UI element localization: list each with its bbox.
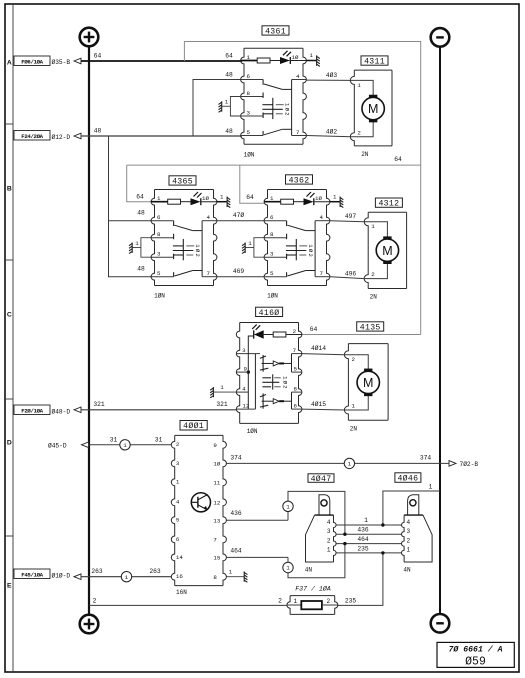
svg-text:4N: 4N: [403, 566, 411, 573]
fuse F37/10A: [287, 585, 338, 615]
svg-text:31: 31: [110, 436, 118, 443]
wire 48 branch to pin 6: [193, 71, 241, 136]
4361 coil terminals pins 8,3: [241, 96, 264, 98]
wire 402: [306, 128, 351, 137]
svg-text:3: 3: [327, 528, 331, 535]
4312 motor symbol: [376, 239, 398, 261]
ground at 4001 pin 8: [226, 569, 247, 583]
svg-text:64: 64: [225, 53, 233, 60]
svg-text:F37 / 1ØA: F37 / 1ØA: [295, 585, 331, 593]
svg-text:374: 374: [230, 455, 242, 462]
svg-text:4: 4: [327, 519, 331, 526]
wire 64 to 4160 pin 2: [302, 326, 421, 335]
svg-text:64: 64: [136, 194, 144, 201]
svg-text:1ØN: 1ØN: [154, 293, 165, 300]
svg-text:3: 3: [246, 109, 250, 116]
accessory socket 4Ø47: [305, 474, 336, 574]
F37 fuse element: [287, 604, 301, 606]
svg-text:4312: 4312: [378, 200, 399, 209]
4001 designator label: [180, 421, 207, 431]
wire 263: [81, 568, 171, 577]
svg-text:1: 1: [333, 193, 337, 200]
svg-text:64: 64: [394, 156, 402, 163]
svg-text:15: 15: [213, 555, 220, 562]
ground strap 4362 pins 8-3: [254, 238, 264, 258]
instrument cluster 4001: [171, 421, 226, 596]
svg-text:1: 1: [327, 547, 331, 554]
svg-text:2: 2: [281, 385, 288, 388]
wire 235 between sockets: [336, 545, 401, 553]
battery plus terminal bottom: [80, 615, 99, 634]
svg-text:1: 1: [220, 193, 224, 200]
4365 coil terminals pins 8,3: [151, 237, 174, 239]
4001 transistor symbol: [191, 493, 210, 512]
4362 contact pin 6-4: [264, 220, 287, 222]
svg-text:1: 1: [357, 82, 361, 89]
svg-text:D: D: [7, 440, 12, 447]
svg-text:47Ø: 47Ø: [233, 211, 245, 219]
4362 internal resistor: [264, 201, 281, 203]
svg-text:4361: 4361: [265, 27, 286, 36]
wire 470: [217, 211, 265, 221]
wire 48 branch to 4365: [109, 136, 152, 277]
svg-text:M: M: [368, 102, 378, 116]
svg-text:4362: 4362: [289, 176, 310, 185]
svg-text:2: 2: [284, 112, 291, 115]
motor 4135: [344, 322, 388, 433]
wire 403: [306, 71, 351, 80]
relay 4362: [242, 175, 343, 300]
zone strip line: [12, 4, 14, 672]
4361 designator label: [262, 26, 289, 35]
4365 designator label: [169, 176, 196, 185]
4Ø46 body: [404, 514, 423, 516]
svg-text:263: 263: [149, 568, 161, 575]
svg-text:2: 2: [176, 441, 180, 448]
svg-text:16N: 16N: [176, 589, 187, 596]
wire 436 between sockets: [336, 527, 401, 535]
wire 64 drop to 4365: [127, 165, 151, 202]
4Ø47 designator label: [308, 474, 334, 483]
svg-text:M: M: [363, 376, 373, 390]
wire 374: [226, 455, 478, 468]
svg-text:13: 13: [213, 517, 220, 524]
4365 common contact bar: [201, 221, 203, 277]
wire 1 supply from minus bus: [383, 483, 440, 525]
ground point at 4160 pin 4: [210, 384, 236, 398]
inline connector on wire 464: [283, 562, 293, 572]
svg-text:48: 48: [225, 128, 233, 135]
svg-text:235: 235: [357, 545, 369, 552]
battery plus terminal top: [80, 28, 99, 47]
zone divisions: [5, 124, 13, 536]
svg-text:A: A: [7, 60, 12, 67]
svg-text:2N: 2N: [350, 425, 358, 432]
svg-text:4Ø3: 4Ø3: [326, 71, 338, 79]
svg-text:31: 31: [155, 436, 163, 443]
4365 internal resistor: [151, 201, 168, 203]
svg-text:4: 4: [296, 73, 300, 80]
svg-text:1: 1: [135, 240, 139, 247]
svg-text:1: 1: [310, 52, 314, 59]
svg-text:8: 8: [270, 231, 274, 238]
svg-text:2: 2: [293, 328, 297, 335]
wire 64 feed: [81, 53, 242, 62]
svg-text:1Ø: 1Ø: [292, 54, 299, 61]
motor 4311: [350, 56, 392, 158]
svg-text:436: 436: [357, 527, 369, 534]
inline connector on wire 436: [283, 501, 293, 511]
svg-text:48: 48: [137, 210, 145, 217]
svg-text:Ø35-B: Ø35-B: [52, 59, 71, 66]
inline connector on wire 374: [344, 458, 354, 468]
4361 capacitor: [272, 98, 274, 119]
svg-text:4311: 4311: [364, 57, 385, 66]
battery minus terminal bottom: [431, 614, 450, 633]
motor 4312: [364, 198, 406, 301]
svg-text:2: 2: [194, 253, 201, 256]
4361 internal resistor: [241, 60, 258, 62]
wire 4014: [302, 344, 345, 355]
svg-text:Ø1Ø-D: Ø1Ø-D: [52, 572, 71, 579]
4361 contact pin 6-4: [241, 79, 264, 81]
4365 contact pin 6-4: [151, 220, 174, 222]
svg-text:64: 64: [94, 53, 102, 60]
svg-text:2: 2: [371, 271, 375, 278]
4Ø46 designator label: [395, 473, 421, 483]
ground strap 4361 pins 8-3: [230, 97, 240, 117]
4160 LED indicator: [253, 330, 255, 338]
svg-text:3: 3: [270, 251, 274, 258]
svg-text:8: 8: [293, 386, 297, 393]
svg-text:3: 3: [157, 251, 161, 258]
4362 common contact bar: [314, 221, 316, 277]
svg-text:2: 2: [351, 356, 355, 363]
svg-text:5: 5: [293, 366, 297, 373]
4160 internal rails pins 3,9,4,12: [236, 353, 260, 355]
svg-text:464: 464: [357, 536, 369, 543]
svg-text:1: 1: [225, 99, 229, 106]
svg-text:FØ6/1ØA: FØ6/1ØA: [21, 59, 43, 66]
wire 321: [81, 401, 236, 410]
svg-text:4Ø14: 4Ø14: [311, 344, 326, 352]
wire 436: [226, 491, 345, 534]
4362 contact pin 5-7: [264, 276, 287, 278]
svg-text:4: 4: [406, 519, 410, 526]
svg-text:2: 2: [278, 597, 282, 604]
svg-text:374: 374: [420, 455, 432, 462]
junction 464: [343, 542, 346, 545]
svg-text:1: 1: [229, 569, 233, 576]
svg-text:5: 5: [176, 517, 180, 524]
4160 lower switch with diode: [262, 393, 264, 408]
fuse feed F24/20A node 012-D: [14, 131, 81, 141]
wire 464: [226, 544, 345, 578]
wire 48 feed: [81, 127, 242, 136]
wire 64 drop to 4362: [240, 165, 264, 203]
svg-text:4: 4: [320, 214, 324, 221]
svg-text:64: 64: [310, 326, 318, 333]
svg-text:1: 1: [429, 483, 433, 490]
4362 coil terminals pins 8,3: [264, 237, 287, 239]
svg-text:1Ø: 1Ø: [202, 195, 209, 202]
svg-text:464: 464: [230, 547, 242, 554]
svg-text:469: 469: [233, 268, 245, 275]
svg-text:1Ø: 1Ø: [213, 461, 220, 468]
wire 235 to fuse F37: [338, 553, 383, 606]
svg-text:Ø45-D: Ø45-D: [48, 443, 67, 450]
svg-text:4365: 4365: [172, 177, 193, 186]
4365 capacitor: [182, 239, 184, 260]
svg-text:F24/2ØA: F24/2ØA: [21, 133, 43, 140]
svg-text:B: B: [7, 186, 12, 193]
svg-text:1: 1: [406, 547, 410, 554]
electronic unit 4160: [236, 307, 302, 435]
4160 upper switch with diode: [262, 355, 264, 372]
svg-text:7Ø 6661 / A: 7Ø 6661 / A: [448, 645, 502, 655]
svg-text:3: 3: [406, 528, 410, 535]
svg-text:2: 2: [93, 597, 97, 604]
svg-text:2: 2: [357, 129, 361, 136]
svg-text:4135: 4135: [360, 323, 381, 332]
4160 capacitor: [272, 374, 274, 389]
svg-text:4N: 4N: [305, 566, 313, 573]
inline connector on wire 31: [120, 440, 130, 450]
4135 designator label: [357, 322, 384, 331]
svg-text:3: 3: [242, 347, 246, 354]
svg-text:1: 1: [286, 504, 290, 511]
4Ø47 body: [315, 514, 334, 516]
svg-text:9: 9: [213, 442, 217, 449]
svg-text:4Ø2: 4Ø2: [326, 128, 338, 136]
wire 496: [330, 270, 364, 278]
svg-text:497: 497: [345, 213, 357, 220]
svg-text:5: 5: [246, 129, 250, 136]
svg-text:16: 16: [176, 573, 183, 580]
wire 469: [217, 268, 265, 277]
svg-text:6: 6: [293, 403, 297, 410]
accessory socket 4Ø46: [395, 473, 432, 574]
svg-text:11: 11: [213, 480, 220, 487]
svg-text:48: 48: [137, 266, 145, 273]
svg-text:1: 1: [123, 442, 127, 449]
4361 common contact bar: [291, 80, 293, 136]
4160 internal resistor: [273, 332, 286, 337]
svg-text:4Ø47: 4Ø47: [311, 474, 332, 484]
4135 motor symbol: [357, 371, 379, 393]
svg-text:6: 6: [246, 73, 250, 80]
minus bus wire: [439, 47, 441, 614]
svg-text:1: 1: [125, 574, 129, 581]
relay 4361: [219, 26, 320, 159]
svg-text:E: E: [7, 583, 12, 590]
svg-text:Ø12-D: Ø12-D: [52, 134, 71, 141]
svg-text:1ØN: 1ØN: [267, 293, 278, 300]
svg-text:1ØN: 1ØN: [247, 428, 258, 435]
svg-text:7: 7: [213, 537, 217, 544]
fuse feed F06/10A node 035-B: [14, 56, 81, 66]
svg-text:C: C: [7, 312, 12, 319]
4362 designator label: [286, 175, 313, 184]
svg-text:1: 1: [348, 461, 352, 468]
4311 motor symbol: [362, 97, 384, 119]
svg-text:64: 64: [246, 194, 254, 201]
svg-text:2: 2: [327, 537, 331, 544]
svg-text:436: 436: [230, 510, 242, 517]
svg-text:Ø59: Ø59: [465, 656, 486, 669]
svg-text:2: 2: [406, 537, 410, 544]
svg-text:48: 48: [94, 127, 102, 134]
svg-text:48: 48: [225, 71, 233, 78]
svg-text:1: 1: [248, 240, 252, 247]
wire 64 rail: [127, 156, 421, 165]
svg-text:1: 1: [293, 598, 297, 605]
4160 designator label: [256, 307, 283, 316]
plus bus wire: [88, 46, 90, 614]
wire 497: [330, 213, 364, 222]
4311 designator label: [361, 56, 388, 65]
svg-text:496: 496: [345, 270, 357, 277]
svg-text:4Ø15: 4Ø15: [311, 400, 326, 408]
svg-text:2N: 2N: [370, 294, 378, 301]
junction 436: [343, 533, 346, 536]
svg-text:2N: 2N: [361, 151, 369, 158]
battery minus terminal top: [431, 28, 450, 47]
wire 64 loop over relay 4361: [184, 42, 420, 335]
svg-text:1: 1: [176, 479, 180, 486]
svg-text:4: 4: [242, 386, 246, 393]
svg-text:1: 1: [364, 517, 368, 524]
svg-text:7: 7: [320, 270, 324, 277]
junction wire 1: [381, 523, 384, 526]
svg-text:4Ø46: 4Ø46: [397, 473, 418, 483]
svg-text:8: 8: [157, 231, 161, 238]
svg-text:321: 321: [93, 401, 105, 408]
svg-text:7: 7: [296, 129, 300, 136]
svg-text:F2Ø/1ØA: F2Ø/1ØA: [21, 408, 43, 415]
svg-text:1ØN: 1ØN: [244, 152, 255, 159]
wire 31: [48, 436, 171, 449]
svg-text:12: 12: [213, 500, 220, 507]
wire 464 between sockets: [336, 536, 401, 544]
svg-text:7: 7: [293, 347, 297, 354]
svg-text:5: 5: [157, 270, 161, 277]
svg-text:8: 8: [213, 574, 217, 581]
svg-text:1: 1: [351, 403, 355, 410]
svg-text:5: 5: [270, 270, 274, 277]
svg-text:6: 6: [176, 536, 180, 543]
title block: [437, 642, 514, 668]
svg-text:235: 235: [345, 597, 357, 604]
svg-text:4: 4: [176, 499, 180, 506]
svg-text:M: M: [382, 244, 392, 258]
wire 4015: [302, 400, 345, 410]
ground strap 4365 pins 8-3: [141, 238, 151, 258]
svg-text:263: 263: [91, 568, 103, 575]
svg-text:F45/1ØA: F45/1ØA: [21, 572, 43, 579]
4362 capacitor: [295, 239, 297, 260]
fuse feed F20/10A node 048-D: [14, 405, 81, 415]
wire 1 between sockets: [336, 517, 401, 525]
relay 4365: [129, 176, 230, 300]
svg-text:7: 7: [207, 270, 211, 277]
svg-text:2: 2: [307, 253, 314, 256]
svg-text:1Ø: 1Ø: [315, 195, 322, 202]
4160 output bars pins 7-5 and 8-6: [291, 354, 293, 373]
svg-text:2: 2: [326, 598, 330, 605]
svg-text:7Ø2-B: 7Ø2-B: [460, 461, 479, 468]
inline connector on wire 263: [121, 572, 131, 582]
junction wire 235: [381, 551, 384, 554]
svg-text:4: 4: [207, 214, 211, 221]
svg-text:1: 1: [286, 565, 290, 572]
svg-text:6: 6: [157, 214, 161, 221]
4361 contact pin 5-7: [241, 135, 264, 137]
svg-text:416Ø: 416Ø: [259, 308, 280, 318]
svg-text:4ØØ1: 4ØØ1: [183, 421, 204, 431]
fuse feed F45/10A node 010-D: [14, 569, 81, 580]
svg-text:8: 8: [246, 90, 250, 97]
wire 2 from plus bus: [89, 597, 287, 605]
svg-text:1: 1: [220, 384, 224, 391]
svg-text:321: 321: [216, 401, 228, 408]
4365 contact pin 5-7: [151, 276, 174, 278]
4312 designator label: [375, 198, 402, 207]
svg-text:1: 1: [371, 223, 375, 230]
svg-text:3: 3: [176, 460, 180, 467]
svg-text:14: 14: [176, 554, 183, 561]
svg-text:6: 6: [270, 214, 274, 221]
svg-text:Ø48-D: Ø48-D: [52, 408, 71, 415]
